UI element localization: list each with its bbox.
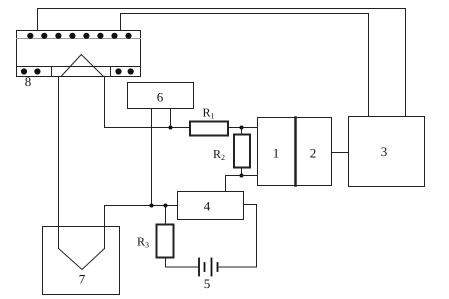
block 3 — [349, 117, 425, 187]
junction: R3 branch on lower wire — [164, 204, 168, 208]
block 1 — [258, 118, 296, 186]
resistor R2 (with leads) — [234, 128, 250, 176]
svg-text:1: 1 — [273, 146, 280, 161]
vessel 7 (container with funnel) — [43, 227, 120, 295]
wire: node B to block 1 — [242, 175, 258, 177]
svg-text:5: 5 — [204, 276, 211, 291]
wire: block 6 left lead down to lower wire — [151, 109, 153, 206]
transducer 8 (vibrating feeder body) — [17, 31, 141, 77]
block 4 — [178, 192, 244, 220]
wire: R3 bottom to battery 5 — [166, 258, 200, 268]
svg-text:R1: R1 — [203, 106, 215, 121]
divider between blocks 1 and 2 — [294, 118, 297, 186]
wire: battery 5 to block 4 right — [218, 205, 257, 268]
block 2 — [296, 118, 332, 186]
svg-text:4: 4 — [204, 199, 211, 214]
junction: block 6 left lead on lower wire — [150, 204, 154, 208]
wire W2: inner top loop (transducer 8 top-right lead to block 3 top) — [121, 14, 369, 117]
svg-text:3: 3 — [381, 144, 388, 159]
resistor R1 — [190, 122, 228, 136]
svg-text:R2: R2 — [213, 147, 225, 162]
svg-text:8: 8 — [25, 74, 32, 89]
junction: node A (R1/R2/block1) — [240, 126, 244, 130]
battery 5 (two cells) — [199, 259, 218, 276]
wire: block 2 to block 3 — [332, 152, 349, 154]
wire: block 6 right lead to mid wire — [170, 109, 172, 128]
amplifier block 6 — [128, 83, 194, 109]
wire: transducer 8 right lead to mid node (to R1) — [105, 77, 191, 128]
wire W1: outer top loop (transducer 8 top-left lead to block 3 top) — [38, 9, 406, 117]
svg-text:6: 6 — [157, 90, 164, 105]
svg-text:2: 2 — [310, 146, 317, 161]
svg-text:7: 7 — [79, 272, 86, 287]
junction: node B (R2 bottom) — [240, 174, 244, 178]
resistor R3 (with top lead) — [157, 206, 174, 258]
svg-text:R3: R3 — [137, 235, 149, 250]
junction: block 6 right lead on mid wire — [169, 126, 173, 130]
wire: R1 right to block 1 (top node wire) — [228, 127, 258, 129]
wire: vessel 7 right electrode up and to block 4 — [105, 206, 178, 249]
wire: node B to block 4 top — [226, 176, 242, 192]
wire: transducer 8 left lead down to vessel 7 left electrode — [58, 77, 60, 249]
